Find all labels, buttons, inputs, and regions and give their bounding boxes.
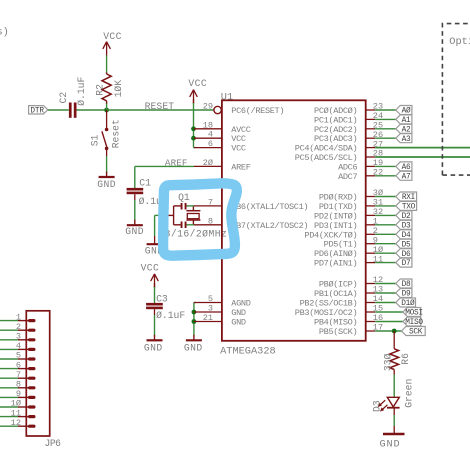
svg-text:PBØ(ICP): PBØ(ICP) <box>319 280 357 290</box>
power VCC above C3 <box>141 262 160 288</box>
wire VCC to AVCC and VCC pins <box>194 99 196 148</box>
wire S1 to GND <box>106 148 108 172</box>
svg-text:GND: GND <box>125 226 144 237</box>
svg-text:12: 12 <box>11 418 21 428</box>
capacitor C2 <box>58 77 87 118</box>
pin 8 PB7(XTAL2/TOSC2) <box>194 216 308 231</box>
net flag TXO <box>396 201 417 211</box>
label JP6 <box>45 438 62 449</box>
pin 25 PC2(ADC2) <box>314 121 396 135</box>
svg-text:s): s) <box>0 27 9 39</box>
pin 8 JP6 <box>0 380 36 390</box>
pin 5 AGND <box>194 294 251 309</box>
svg-text:C3: C3 <box>156 293 168 304</box>
svg-text:29: 29 <box>203 102 213 112</box>
pin 23 PC0(ADC0) <box>314 102 396 116</box>
pin 5 JP6 <box>0 351 36 361</box>
wire GND pins net <box>194 303 196 336</box>
junction node SCK <box>392 329 397 334</box>
junction node AVCC <box>191 126 196 131</box>
capacitor C3 <box>146 293 185 321</box>
net label AREF <box>165 157 188 168</box>
svg-text:C1: C1 <box>139 178 151 189</box>
pin 13 PB1(OC1A) <box>314 285 396 299</box>
svg-text:PB7(XTAL2/TOSC2): PB7(XTAL2/TOSC2) <box>231 221 308 231</box>
svg-text:11: 11 <box>11 408 21 418</box>
svg-text:ATMEGA328: ATMEGA328 <box>220 345 276 357</box>
junction node GND pin21 <box>192 319 197 324</box>
svg-text:D7: D7 <box>402 260 411 268</box>
svg-text:PB3(MOSI/OC2): PB3(MOSI/OC2) <box>295 308 358 318</box>
svg-text:PD7(AIN1): PD7(AIN1) <box>314 259 357 269</box>
svg-text:U1: U1 <box>221 92 233 104</box>
pin 9 PD5(T1) <box>324 235 396 249</box>
svg-text:GND: GND <box>231 308 246 318</box>
pin 15 PB3(MOSI/OC2) <box>295 304 403 318</box>
svg-text:AGND: AGND <box>231 299 250 309</box>
capacitor C1 <box>127 178 168 208</box>
label Q1 <box>178 192 190 203</box>
value ATMEGA328 <box>220 345 276 357</box>
pin 10 JP6 <box>0 399 36 409</box>
net flag MOSI <box>403 308 423 318</box>
svg-text:VCC: VCC <box>231 144 246 154</box>
svg-text:1ØK: 1ØK <box>113 80 124 98</box>
resistor R2 10K <box>95 73 125 105</box>
net flag D7 <box>396 258 412 268</box>
wire XTAL1 <box>187 205 195 207</box>
sheet note text s) <box>0 27 9 39</box>
pin 27 PC4(ADC4/SDA) <box>295 139 470 153</box>
svg-text:8/16/2ØMHz: 8/16/2ØMHz <box>165 228 228 239</box>
svg-text:S1: S1 <box>89 134 100 146</box>
pin 17 PB5(SCK) <box>319 323 402 337</box>
pin 31 PD1(TXD) <box>319 198 396 212</box>
pin 16 PB4(MISO) <box>314 313 403 327</box>
svg-text:ADC7: ADC7 <box>338 172 357 182</box>
svg-text:PB6(XTAL1/TOSC1): PB6(XTAL1/TOSC1) <box>231 202 308 212</box>
svg-text:7: 7 <box>16 370 21 380</box>
wire R2 to junction <box>106 104 108 111</box>
svg-text:3: 3 <box>16 332 21 342</box>
value 8/16/20MHz <box>165 228 228 239</box>
svg-text:PD5(T1): PD5(T1) <box>324 240 358 250</box>
svg-text:6: 6 <box>16 360 21 370</box>
wire VCC to C3 <box>154 283 156 303</box>
net flag D10 <box>396 298 416 308</box>
svg-text:GND: GND <box>97 179 116 190</box>
ground GND at D3 <box>380 434 405 450</box>
wire RESET junction to pin 29 <box>107 109 214 111</box>
junction node GND pin3 <box>192 310 197 315</box>
ground GND at C1 <box>125 220 144 238</box>
svg-text:PB4(MISO): PB4(MISO) <box>314 318 357 328</box>
net flag D5 <box>396 239 412 249</box>
wire SCK to R6 <box>393 331 395 349</box>
wire C2 to RESET junction <box>77 109 107 111</box>
net flag A3 <box>396 134 412 144</box>
IC U1 ATMEGA328 body <box>222 100 366 340</box>
svg-text:DTR: DTR <box>30 108 44 116</box>
svg-text:A7: A7 <box>402 173 411 181</box>
svg-text:R2: R2 <box>95 84 106 96</box>
svg-text:D3: D3 <box>371 400 382 412</box>
pin 10 PD6(AIN0) <box>314 245 396 259</box>
svg-text:PB2(SS/OC1B): PB2(SS/OC1B) <box>300 299 358 309</box>
pin 29 bubble <box>214 106 221 113</box>
pin 6 JP6 <box>0 360 36 370</box>
svg-text:C2: C2 <box>58 92 69 104</box>
svg-text:2: 2 <box>16 322 21 332</box>
pin 18 AVCC <box>194 120 251 135</box>
wire R6 to LED <box>393 370 395 398</box>
pin 4 JP6 <box>0 341 36 351</box>
net flag A7 <box>396 171 412 181</box>
svg-text:VCC: VCC <box>103 31 122 42</box>
svg-text:D1Ø: D1Ø <box>401 299 415 308</box>
net flag DTR <box>29 106 48 116</box>
pin 11 JP6 <box>0 408 36 418</box>
svg-text:5: 5 <box>16 351 21 361</box>
power VCC above R2 <box>103 31 122 56</box>
pin 3 JP6 <box>0 332 36 342</box>
pin 28 PC5(ADC5/SCL) <box>295 149 470 163</box>
label U1 <box>221 92 233 104</box>
svg-text:VCC: VCC <box>188 78 207 89</box>
wire LED to GND <box>393 408 395 433</box>
pin 12 JP6 <box>0 418 36 428</box>
junction node RESET <box>104 108 109 113</box>
svg-text:Optio: Optio <box>449 36 470 48</box>
svg-text:A3: A3 <box>402 136 411 144</box>
pin 24 PC1(ADC1) <box>314 111 396 125</box>
LED D3 Green <box>371 379 414 412</box>
pin 1 PD3(INT1) <box>314 217 396 231</box>
svg-text:Ø.1uF: Ø.1uF <box>156 310 185 321</box>
net label RESET <box>145 101 175 112</box>
net flag A2 <box>396 124 412 134</box>
svg-text:Green: Green <box>404 379 415 408</box>
ground GND at S1 <box>97 172 116 191</box>
wire AREF to C1 <box>134 166 136 188</box>
svg-text:Reset: Reset <box>111 119 122 148</box>
wire junction to S1 <box>106 110 108 129</box>
wire VCC to R2 <box>106 56 108 74</box>
svg-text:8: 8 <box>16 380 21 390</box>
pin 4 VCC <box>194 130 246 145</box>
svg-text:GND: GND <box>184 342 203 353</box>
svg-text:GND: GND <box>380 439 401 450</box>
resonator Q1 <box>167 203 200 228</box>
svg-text:SCK: SCK <box>409 329 423 337</box>
net flag D4 <box>396 230 412 240</box>
highlight marker around Q1 <box>163 183 237 255</box>
pin 7 JP6 <box>0 370 36 380</box>
net flag A0 <box>396 106 412 116</box>
wire AREF <box>135 165 194 167</box>
pin 2 PD4(XCK/T0) <box>304 226 395 240</box>
svg-text:VCC: VCC <box>141 262 160 273</box>
ground GND at Q1 <box>145 236 164 257</box>
net flag MISO <box>403 317 424 327</box>
svg-text:GND: GND <box>144 342 163 353</box>
power VCC above AVCC <box>188 78 207 104</box>
svg-text:33Ø: 33Ø <box>383 353 394 371</box>
net flag SCK <box>402 327 426 337</box>
svg-text:PB1(OC1A): PB1(OC1A) <box>314 289 357 299</box>
svg-text:PD1(TXD): PD1(TXD) <box>319 202 357 212</box>
wire DTR to C2 <box>48 109 69 111</box>
net flag A6 <box>396 162 412 172</box>
pin 6 VCC <box>194 139 246 154</box>
pin 32 PD2(INT0) <box>314 207 396 221</box>
note Optional <box>449 36 470 48</box>
pin 26 PC3(ADC3) <box>314 130 396 144</box>
svg-text:Q1: Q1 <box>178 192 190 203</box>
wire C3 to GND <box>154 309 156 335</box>
pin 21 GND <box>194 313 246 328</box>
svg-text:Ø.1uF: Ø.1uF <box>76 77 87 106</box>
pin 14 PB2(SS/OC1B) <box>300 294 396 308</box>
junction node VCC pin4 <box>191 136 196 141</box>
pin 29 PC6(/RESET) <box>203 102 284 117</box>
svg-text:GND: GND <box>231 318 246 328</box>
svg-text:AØ: AØ <box>402 107 411 116</box>
svg-text:4: 4 <box>16 341 21 351</box>
svg-text:PB5(SCK): PB5(SCK) <box>319 327 357 337</box>
pin 30 PD0(RXD) <box>319 188 396 202</box>
svg-text:R6: R6 <box>400 353 411 365</box>
pin 20 AREF <box>194 158 251 173</box>
pin 19 ADC6 <box>338 158 396 172</box>
ground GND at C3 <box>144 335 163 354</box>
net flag D6 <box>396 249 412 259</box>
wire XTAL2 <box>187 224 195 226</box>
wire Q1 ground net <box>155 215 168 236</box>
svg-text:JP6: JP6 <box>45 438 62 449</box>
pin 7 PB6(XTAL1/TOSC1) <box>194 197 308 212</box>
net flag D3 <box>396 220 412 230</box>
net flag D9 <box>396 289 412 299</box>
switch S1 Reset <box>89 119 121 150</box>
dashed option box <box>442 24 470 176</box>
net flag A1 <box>396 115 412 125</box>
svg-text:1: 1 <box>16 312 21 322</box>
connector JP6 body <box>26 311 49 436</box>
ground GND at AGND <box>184 335 203 354</box>
net flag D2 <box>396 211 412 221</box>
net flag D8 <box>396 279 412 289</box>
pin 1 JP6 <box>0 312 36 322</box>
resistor R6 330 <box>383 349 411 371</box>
pin 3 GND <box>194 304 246 319</box>
pin 12 PB0(ICP) <box>319 275 396 289</box>
svg-text:1Ø: 1Ø <box>11 399 21 409</box>
wire C1 to GND <box>134 194 136 220</box>
net flag RXI <box>396 192 417 202</box>
pin 22 ADC7 <box>338 168 396 182</box>
svg-text:PD3(INT1): PD3(INT1) <box>314 221 357 231</box>
svg-text:AREF: AREF <box>231 162 250 172</box>
pin 2 JP6 <box>0 322 36 332</box>
pin 9 JP6 <box>0 389 36 399</box>
pin 11 PD7(AIN1) <box>314 254 396 268</box>
svg-text:9: 9 <box>16 389 21 399</box>
svg-text:PC6(/RESET): PC6(/RESET) <box>231 106 284 116</box>
